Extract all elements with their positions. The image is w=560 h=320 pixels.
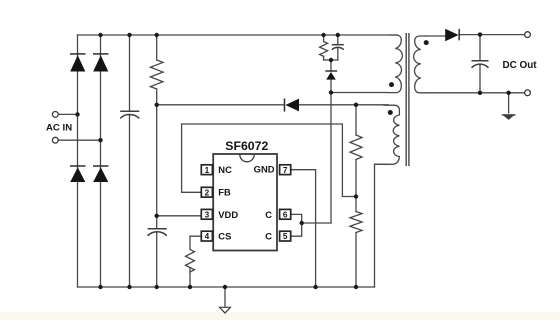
svg-text:CS: CS xyxy=(218,231,231,242)
svg-text:GND: GND xyxy=(254,164,275,175)
svg-text:AC IN: AC IN xyxy=(46,123,72,134)
svg-text:C: C xyxy=(265,209,272,220)
svg-text:FB: FB xyxy=(218,187,231,198)
svg-text:2: 2 xyxy=(205,188,210,197)
svg-text:C: C xyxy=(265,231,272,242)
svg-text:3: 3 xyxy=(205,210,210,219)
svg-text:SF6072: SF6072 xyxy=(225,139,268,153)
svg-text:6: 6 xyxy=(283,210,288,219)
svg-text:DC Out: DC Out xyxy=(503,60,538,71)
svg-text:7: 7 xyxy=(283,166,288,175)
svg-text:VDD: VDD xyxy=(218,209,238,220)
svg-text:4: 4 xyxy=(205,232,210,241)
svg-text:5: 5 xyxy=(283,232,288,241)
svg-text:1: 1 xyxy=(205,166,210,175)
svg-text:NC: NC xyxy=(218,164,232,175)
